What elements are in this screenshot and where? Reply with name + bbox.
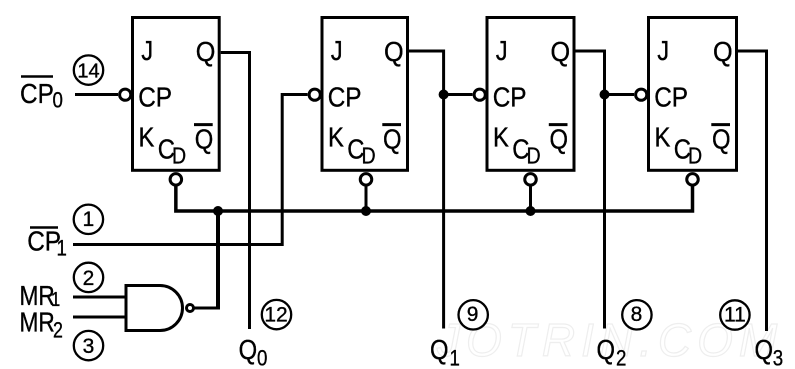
svg-text:14: 14 [77,60,99,82]
wire U2 Q output [408,51,444,329]
svg-text:1: 1 [83,208,95,231]
svg-text:Q: Q [195,123,214,155]
U3 CD input bubble [525,174,537,186]
flip-flop U2 box [322,18,408,171]
flip-flop U4 box [649,18,737,171]
svg-text:Q: Q [551,36,571,68]
svg-text:Q: Q [713,36,733,68]
svg-text:Q: Q [597,333,616,365]
svg-text:J: J [657,34,669,66]
svg-text:D: D [172,143,186,169]
svg-text:Q: Q [550,123,569,155]
svg-text:0: 0 [53,89,63,113]
wire U1 Q output [221,53,250,330]
U1 CP input bubble [120,89,131,100]
wire CD reset bus [176,185,693,211]
wire NAND output to reset line [194,307,220,310]
svg-text:MR: MR [20,307,55,338]
svg-text:3: 3 [773,347,783,369]
wire MR2 input [73,316,127,319]
pin circle 1 [74,205,103,234]
junction U2 CD on bus [361,206,371,216]
svg-text:Q: Q [196,36,216,68]
wire MR1 input [73,296,127,299]
svg-text:CP: CP [20,77,54,109]
junction Q2 to U4 CP [600,90,610,100]
svg-text:Q: Q [430,333,449,365]
svg-text:K: K [493,121,509,153]
svg-text:Q: Q [712,123,731,155]
svg-text:1: 1 [450,347,460,369]
U4 CD input bubble [687,174,699,186]
flip-flop U3 box [487,18,574,171]
svg-text:Q: Q [239,333,258,365]
svg-text:K: K [655,121,671,153]
svg-text:11: 11 [724,303,746,326]
svg-text:2: 2 [83,267,95,290]
U2 CD input bubble [360,174,372,186]
svg-text:2: 2 [53,319,63,343]
pin circle 8 [622,300,651,329]
svg-text:CP: CP [138,81,172,113]
pin circle 3 [74,331,103,360]
svg-text:9: 9 [467,303,479,326]
svg-text:3: 3 [83,335,95,358]
U3 CP input bubble [474,89,485,100]
svg-text:8: 8 [631,303,643,326]
junction Q1 to U3 CP [439,90,449,100]
wire U3 CD drop [529,185,532,211]
U4 CP input bubble [636,89,647,100]
junction U3 CD on bus [526,206,536,216]
wire reset vertical [216,210,220,310]
svg-text:J: J [141,34,153,66]
wire U2 CD drop [365,185,368,211]
U2 CP input bubble [309,89,320,100]
pin circle 2 [74,263,103,292]
svg-text:D: D [362,143,376,169]
wire CP0 to U1 CP [75,93,118,96]
wire Q1 to U3 CP [444,93,473,96]
svg-text:K: K [328,121,344,153]
svg-text:1: 1 [57,237,67,261]
svg-text:D: D [527,143,541,169]
svg-text:J: J [496,34,508,66]
svg-text:Q: Q [383,123,402,155]
wire Q2 to U4 CP [605,93,635,96]
svg-text:K: K [139,121,155,153]
svg-text:0: 0 [257,347,267,369]
svg-text:2: 2 [616,347,626,369]
U1 CD input bubble [170,174,182,186]
NAND output bubble [187,305,194,312]
svg-text:CP: CP [654,81,688,113]
svg-text:CP: CP [328,81,362,113]
svg-text:Q: Q [755,333,774,365]
flip-flop U1 box [133,18,220,171]
pin circle 14 [74,55,103,84]
wire CP1 to U2 CP [73,95,308,245]
svg-text:D: D [688,143,702,169]
NAND gate G1 [126,286,182,331]
svg-text:J: J [331,34,343,66]
svg-text:Q: Q [384,36,404,68]
pin circle 11 [720,300,749,329]
pin circle 12 [262,300,291,329]
pin circle 9 [459,300,488,329]
wire U4 Q output [737,51,767,331]
junction reset-bus at MR [213,206,223,216]
svg-text:CP: CP [493,81,527,113]
svg-text:12: 12 [264,303,287,326]
wire U3 Q output [574,51,605,329]
